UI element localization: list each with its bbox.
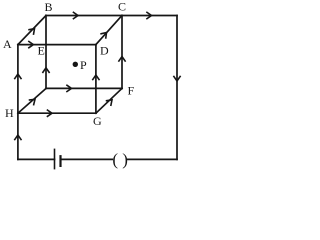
arrow G up to D (92, 75, 99, 80)
svg-text:E: E (38, 44, 45, 58)
wire edge EF (46, 87, 122, 89)
wire bottom middle segment (61, 158, 113, 160)
svg-text:P: P (80, 58, 87, 72)
wire edge GF (96, 88, 122, 113)
svg-text:H: H (5, 106, 14, 120)
arrow A to B (28, 26, 37, 35)
wire edge AD (18, 44, 96, 46)
svg-text:A: A (3, 37, 12, 51)
arrow D to C (100, 30, 109, 39)
svg-text:G: G (93, 114, 102, 128)
battery short plate (59, 155, 61, 167)
wire edge DC (96, 16, 122, 45)
arrow H to G (47, 110, 52, 117)
wire edge CF (121, 16, 123, 89)
wire right vertical (176, 16, 178, 160)
wire edge BC (46, 15, 122, 17)
wire bottom left segment (18, 158, 55, 160)
arrow E up to B (42, 68, 49, 73)
arrow right wire down (173, 76, 180, 81)
wire edge HG (18, 112, 96, 114)
arrow H to E (29, 97, 38, 106)
svg-text:C: C (118, 0, 126, 14)
svg-text:F: F (128, 84, 135, 98)
wire edge BE (45, 16, 47, 89)
wire C to right corner (122, 15, 177, 17)
svg-text:D: D (100, 44, 109, 58)
arrow A to E (28, 41, 33, 48)
arrow F up to C (118, 57, 125, 62)
arrows (chevrons) (14, 12, 180, 140)
wire H down to bottom (17, 113, 19, 159)
arrow G to F (106, 97, 115, 106)
svg-text:B: B (45, 0, 53, 14)
arrow B to C (73, 12, 78, 19)
battery long plate (54, 149, 56, 170)
arrow C to right (146, 12, 151, 19)
arrow bottom up to H (14, 135, 21, 140)
wire edge DG (95, 45, 97, 114)
node P dot (73, 62, 78, 67)
arrow H up to A (14, 74, 21, 79)
arrow E to F (66, 85, 71, 92)
wire edge HE (18, 88, 46, 113)
wire bottom right segment (127, 158, 177, 160)
svg-text:( ): ( ) (112, 150, 128, 169)
wire edge AB (18, 16, 46, 45)
wire edge AH (17, 45, 19, 114)
